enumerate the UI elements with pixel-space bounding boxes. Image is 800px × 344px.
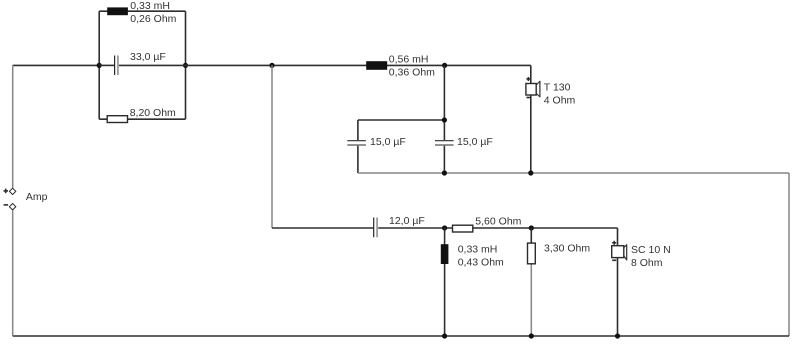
node B: [183, 63, 188, 68]
wire: parallel box top: [99, 10, 185, 12]
node E: [442, 117, 447, 122]
wire: resistor branch lower: [530, 264, 532, 337]
svg-text:SC 10 N: SC 10 N: [631, 244, 671, 256]
wire: right edge vertical: [788, 173, 790, 336]
label U2 name SC 10 N: [631, 244, 671, 256]
wire: woofer speaker drop: [617, 228, 619, 246]
terminal minus sign: [4, 204, 9, 206]
terminal plus diamond: [9, 188, 15, 194]
speaker U2 SC 10 N: [612, 244, 627, 260]
wire: left edge lower: [12, 210, 14, 336]
label U1 value 4 Ohm: [544, 95, 576, 107]
speaker U1 plus sign: [526, 77, 530, 81]
label C4 value 12,0 uF: [389, 215, 425, 227]
label C2 value 15,0 uF: [370, 136, 406, 148]
wire: woofer speaker to bottom rail: [617, 258, 619, 336]
wire: resistor branch upper: [530, 228, 532, 244]
terminal minus diamond: [9, 204, 15, 210]
node D: [442, 63, 447, 68]
resistor R1: [107, 116, 127, 123]
svg-text:0,33 mH: 0,33 mH: [458, 243, 498, 255]
label R1 value 8,20 Ohm: [130, 107, 176, 119]
svg-text:5,60 Ohm: 5,60 Ohm: [475, 215, 521, 227]
svg-text:12,0 µF: 12,0 µF: [389, 215, 425, 227]
node C: [269, 63, 274, 68]
label C3 value 15,0 uF: [457, 136, 493, 148]
node I: [529, 225, 534, 230]
label R2 value 5,60 Ohm: [475, 215, 521, 227]
label Amp: [26, 191, 48, 203]
speaker U1 T 130: [526, 81, 540, 97]
svg-text:0,36 Ohm: 0,36 Ohm: [389, 66, 435, 78]
terminal plus sign: [4, 189, 9, 194]
wire: main rail segment node A to capacitor: [99, 64, 114, 66]
label L3 value 0,43 Ohm: [458, 256, 504, 268]
speaker U2 minus sign: [612, 259, 616, 261]
wire: left edge upper: [12, 65, 14, 188]
node H: [442, 225, 447, 230]
svg-text:8 Ohm: 8 Ohm: [631, 257, 663, 269]
svg-text:0,56 mH: 0,56 mH: [389, 53, 429, 65]
node F: [442, 170, 447, 175]
wire: vertical from node D to cap bank: [443, 65, 445, 140]
wire: lower tweeter rail: [358, 172, 789, 174]
node G: [528, 170, 533, 175]
resistor R2: [453, 225, 473, 232]
wire: inductor branch: [444, 228, 446, 336]
svg-text:3,30 Ohm: 3,30 Ohm: [544, 242, 590, 254]
wire: cap bank top rail: [358, 119, 445, 121]
label L3 value 0,33 mH: [458, 243, 498, 255]
wire: woofer rail left: [272, 227, 374, 229]
capacitor C3: [435, 141, 454, 173]
wire: parallel box bottom: [99, 118, 185, 120]
label L2 value 0,36 Ohm: [389, 66, 435, 78]
label L2 value 0,56 mH: [389, 53, 429, 65]
svg-text:T 130: T 130: [544, 82, 571, 94]
svg-text:33,0 µF: 33,0 µF: [130, 51, 166, 63]
label L1 value 0,26 Ohm: [130, 13, 176, 25]
inductor L3: [441, 244, 449, 264]
node A: [97, 63, 102, 68]
svg-text:Amp: Amp: [26, 191, 48, 203]
wire: bottom rail: [13, 335, 789, 337]
svg-text:15,0 µF: 15,0 µF: [457, 136, 493, 148]
node L: [615, 333, 620, 338]
label C1 value 33,0 uF: [130, 51, 166, 63]
svg-text:4 Ohm: 4 Ohm: [544, 95, 576, 107]
wire: parallel box left vertical: [98, 11, 100, 119]
label R3 value 3,30 Ohm: [544, 242, 590, 254]
capacitor C4: [374, 218, 377, 238]
wire: woofer rail middle: [378, 227, 617, 229]
resistor R3: [528, 243, 536, 264]
svg-text:0,43 Ohm: 0,43 Ohm: [458, 256, 504, 268]
speaker U1 minus sign: [526, 97, 530, 99]
wire: main rail segment capacitor to tweeter corner: [119, 64, 531, 66]
wire: main rail left segment: [13, 64, 100, 66]
node J: [442, 333, 447, 338]
svg-text:0,26 Ohm: 0,26 Ohm: [130, 13, 176, 25]
speaker U2 plus sign: [612, 241, 616, 245]
inductor L2: [366, 61, 387, 70]
svg-text:15,0 µF: 15,0 µF: [370, 136, 406, 148]
node K: [529, 333, 534, 338]
capacitor C1: [115, 56, 118, 76]
svg-text:8,20 Ohm: 8,20 Ohm: [130, 107, 176, 119]
label U2 value 8 Ohm: [631, 257, 663, 269]
label U1 name T 130: [544, 82, 571, 94]
label L1 value 0,33 mH: [130, 0, 170, 12]
wire: parallel box right vertical: [185, 11, 187, 119]
capacitor C2: [347, 120, 366, 173]
svg-text:0,33 mH: 0,33 mH: [130, 0, 170, 12]
wire: woofer branch vertical: [271, 65, 273, 228]
wire: tweeter to bottom node: [530, 95, 532, 173]
wire: tweeter branch down to speaker: [530, 65, 532, 83]
inductor L1: [107, 7, 128, 15]
